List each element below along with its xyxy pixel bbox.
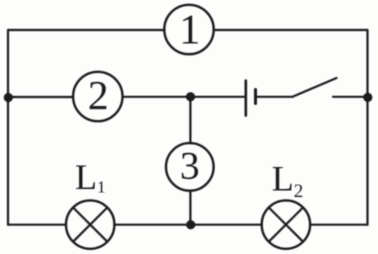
svg-text:1: 1 (179, 7, 200, 54)
meter U1 circle "1" (164, 5, 213, 54)
lamp L1 circle (66, 200, 114, 248)
wire bottom: lamp1 to lamp2 (114, 224, 261, 226)
node right junction (363, 93, 372, 102)
lamp L1 cross (73, 208, 107, 242)
lamp L2 circle (262, 200, 310, 248)
wire battery to switch pivot (257, 96, 293, 98)
wire switch contact to right node (333, 96, 368, 98)
wire middle branch upper (189, 97, 191, 143)
wire bottom: lamp2 to right (310, 224, 367, 226)
svg-text:2: 2 (88, 72, 109, 118)
meter U2 circle "2" (73, 72, 122, 121)
battery BT1 short plate (254, 90, 257, 104)
wire left vertical (7, 30, 9, 225)
wire circle2 to battery (123, 96, 245, 98)
wire top-right (214, 29, 368, 31)
meter U3 circle "3" (166, 143, 214, 191)
wire bottom: left to lamp1 (8, 224, 66, 226)
node middle junction (186, 92, 195, 101)
wire top-left (8, 29, 165, 31)
battery BT1 long plate (245, 81, 248, 116)
svg-text:3: 3 (180, 144, 200, 188)
node bottom junction (186, 220, 195, 229)
node left junction (4, 93, 13, 102)
wire middle branch lower (189, 191, 191, 225)
lamp L2 cross (269, 208, 303, 242)
wire middle left (8, 96, 73, 98)
wire right vertical (366, 30, 368, 225)
switch S1 blade (293, 78, 337, 97)
